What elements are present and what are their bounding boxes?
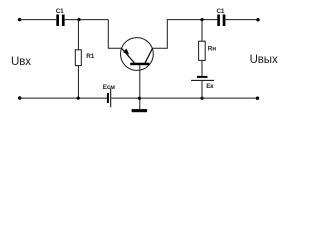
svg-text:Eсм: Eсм: [103, 84, 115, 91]
svg-text:Uвых: Uвых: [250, 54, 278, 66]
node: input bottom terminal: [18, 96, 21, 99]
node: base/rail junction: [138, 97, 141, 100]
battery Ecm: [103, 84, 115, 107]
wire R1 top lead: [77, 20, 79, 50]
wire battery to rail: [201, 81, 203, 98]
svg-text:Rн: Rн: [208, 45, 216, 52]
capacitor C1 (input): [56, 8, 65, 26]
node: output top terminal: [256, 18, 259, 21]
node: input top terminal: [18, 18, 21, 21]
svg-text:Uвх: Uвх: [11, 56, 31, 68]
wire base lead down: [139, 65, 141, 109]
wire C1 to corner: [65, 19, 109, 21]
wire bottom rail left: [20, 97, 107, 99]
resistor Rn: [199, 41, 217, 60]
capacitor C1 (output): [217, 8, 226, 26]
node: R1/rail junction: [77, 97, 80, 100]
wire C1 to output terminal: [225, 19, 258, 21]
wire bottom rail right: [111, 97, 257, 99]
node: junction C1/R1: [77, 18, 80, 21]
wire step down to emitter: [108, 20, 121, 49]
transistor VT (PNP): [120, 38, 153, 71]
svg-text:R1: R1: [86, 53, 94, 60]
resistor R1: [75, 50, 94, 66]
battery Ek: [191, 77, 214, 90]
ground: [132, 109, 148, 112]
node: junction collector/Rn: [200, 18, 203, 21]
svg-text:Eк: Eк: [206, 83, 214, 90]
wire top-left to C1: [20, 19, 57, 21]
svg-text:C1: C1: [56, 8, 64, 15]
wire Rn to battery: [201, 60, 203, 76]
svg-text:C1: C1: [217, 8, 225, 15]
wire collector to top rail: [152, 20, 217, 49]
wire Rn top lead: [201, 20, 203, 42]
node: Ek/rail junction: [200, 97, 203, 100]
node: output bottom terminal: [256, 97, 259, 100]
wire R1 bottom lead: [77, 66, 79, 99]
